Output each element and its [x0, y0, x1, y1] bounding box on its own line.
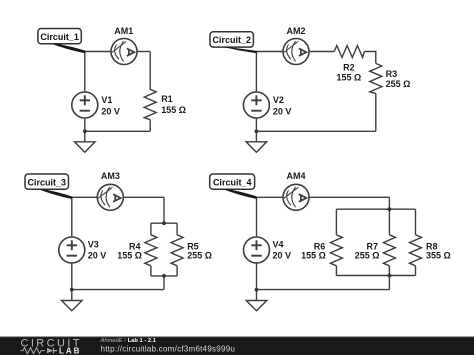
- svg-text:20 V: 20 V: [273, 250, 292, 260]
- wire node4 down to V4 top: [256, 197, 258, 237]
- svg-text:AM3: AM3: [101, 171, 120, 181]
- logo resistor squiggle: [21, 348, 46, 354]
- text R5 value: [187, 241, 212, 260]
- resistor R2 (horizontal): [334, 46, 364, 58]
- wire AM1 right to top-right corner: [137, 51, 150, 53]
- wire R5 top lead: [176, 223, 178, 235]
- ammeter AM1: [111, 39, 137, 65]
- resistor R7: [383, 235, 395, 266]
- wire node2 down to V2 top: [255, 52, 257, 93]
- label pointer c4: [223, 189, 257, 199]
- resistor R1: [144, 89, 156, 119]
- voltage source V3: [59, 237, 85, 263]
- wire V1 bottom to ground junction: [84, 118, 86, 142]
- resistor R4: [145, 235, 157, 266]
- text V2 value: [273, 95, 292, 116]
- wire bottom rail c3: [151, 275, 177, 277]
- wire V2 bottom to ground junction: [255, 118, 257, 142]
- text V1 value: [101, 95, 120, 116]
- ground c4: [246, 301, 267, 311]
- wire R6 top lead: [335, 209, 337, 235]
- text R7 value: [355, 241, 380, 260]
- wire R8 bottom lead: [415, 266, 417, 276]
- ground c2: [246, 142, 267, 153]
- svg-text:LAB: LAB: [59, 346, 81, 355]
- wire AM3 right to corner: [123, 196, 164, 198]
- text R4 value: [117, 241, 142, 260]
- ammeter AM3: [97, 184, 123, 210]
- wire bottom horizontal c3: [72, 289, 164, 291]
- text V3 value: [88, 240, 107, 261]
- svg-text:255 Ω: 255 Ω: [187, 251, 212, 261]
- wire AM4 right to corner: [309, 196, 389, 198]
- svg-text:155 Ω: 155 Ω: [337, 73, 362, 83]
- junction dot bottom c2: [255, 129, 259, 133]
- text R1 value: [161, 94, 186, 115]
- svg-text:155 Ω: 155 Ω: [161, 105, 186, 115]
- wire node1 down to V1 top: [84, 52, 86, 93]
- voltage source V1: [72, 92, 98, 118]
- svg-text:V3: V3: [88, 240, 99, 250]
- label pointer c3: [39, 189, 73, 199]
- svg-text:255 Ω: 255 Ω: [386, 79, 411, 89]
- wire AM2 right to R2 left: [309, 51, 334, 53]
- wire down to parallel top junction: [163, 197, 165, 223]
- wire V4 bottom to ground junction: [256, 263, 258, 301]
- label tag Circuit_2: [210, 32, 253, 47]
- svg-text:20 V: 20 V: [273, 107, 292, 117]
- svg-text:R3: R3: [386, 69, 398, 79]
- ammeter AM4: [283, 184, 309, 210]
- label tag Circuit_1: [38, 29, 81, 44]
- wire down to parallel top junction c4: [388, 197, 390, 209]
- svg-text:155 Ω: 155 Ω: [301, 251, 326, 261]
- voltage source V4: [244, 237, 270, 263]
- svg-text:V4: V4: [273, 240, 284, 250]
- svg-text:R2: R2: [343, 63, 355, 73]
- svg-text:155 Ω: 155 Ω: [117, 251, 142, 261]
- wire node4 to AM4 left: [257, 196, 284, 198]
- text R3 value: [386, 69, 411, 89]
- svg-text:Circuit_1: Circuit_1: [40, 32, 79, 42]
- wire R7 top lead: [388, 209, 390, 235]
- wire R6 bottom lead: [335, 266, 337, 276]
- svg-text:AhmedE / Lab 1 - 2.1: AhmedE / Lab 1 - 2.1: [100, 338, 157, 344]
- wire right vertical down to R1: [149, 52, 151, 90]
- junction dot parallel top c4: [388, 207, 392, 211]
- svg-text:R1: R1: [161, 94, 173, 104]
- label pointer c1: [52, 44, 86, 53]
- svg-text:V2: V2: [273, 95, 284, 105]
- wire R7 bottom lead: [388, 266, 390, 276]
- wire R1 bottom to bottom-right corner: [149, 120, 151, 132]
- wire bottom horizontal c4: [257, 289, 390, 291]
- wire bottom rail c4: [336, 275, 415, 277]
- resistor R5: [171, 235, 183, 266]
- wire R8 top lead: [415, 209, 417, 235]
- wire R4 bottom lead: [150, 266, 152, 276]
- svg-text:Circuit_3: Circuit_3: [28, 177, 67, 187]
- wire R3 bottom down: [375, 93, 377, 131]
- svg-text:AM4: AM4: [286, 171, 305, 181]
- wire R5 bottom lead: [176, 266, 178, 276]
- wire node3 down to V3 top: [71, 197, 73, 237]
- junction dot parallel top c3: [162, 221, 166, 225]
- ground c1: [75, 142, 96, 153]
- svg-text:Circuit_2: Circuit_2: [212, 35, 251, 45]
- svg-text:V1: V1: [101, 95, 112, 105]
- wire node1 to AM1 left: [85, 51, 111, 53]
- junction dot bottom c3: [70, 288, 74, 292]
- wire top rail c3: [151, 222, 177, 224]
- wire node3 to AM3 left: [72, 196, 98, 198]
- label tag Circuit_3: [25, 174, 69, 189]
- text V4 value: [273, 240, 292, 261]
- resistor R3: [370, 63, 382, 93]
- svg-text:AM1: AM1: [114, 26, 133, 36]
- svg-text:20 V: 20 V: [101, 107, 120, 117]
- wire V3 bottom to ground junction: [71, 263, 73, 301]
- svg-text:255 Ω: 255 Ω: [355, 251, 380, 261]
- wire top rail c4: [336, 208, 415, 210]
- wire R2 right to corner: [364, 52, 376, 64]
- svg-text:AM2: AM2: [286, 26, 305, 36]
- text R2 value: [337, 63, 362, 83]
- resistor R6: [330, 235, 342, 266]
- logo diode: [47, 348, 53, 354]
- svg-text:http://circuitlab.com/cf3m6t49: http://circuitlab.com/cf3m6t49s999u: [101, 345, 236, 354]
- junction dot bottom c4: [255, 288, 259, 292]
- voltage source V2: [243, 92, 269, 118]
- ground c3: [62, 301, 83, 311]
- svg-text:355 Ω: 355 Ω: [426, 251, 451, 261]
- footer background: [0, 337, 474, 355]
- junction dot parallel bottom c4: [388, 274, 392, 278]
- wire R4 top lead: [150, 223, 152, 235]
- wire parallel bottom junction down c4: [388, 276, 390, 290]
- svg-text:20 V: 20 V: [88, 250, 107, 260]
- ammeter AM2: [283, 39, 309, 65]
- wire bottom horizontal c2: [256, 130, 375, 132]
- wire parallel bottom junction down: [163, 276, 165, 290]
- text R8 value: [426, 241, 451, 260]
- junction dot parallel bottom c3: [162, 274, 166, 278]
- junction dot bottom c1: [83, 129, 87, 133]
- svg-text:Circuit_4: Circuit_4: [213, 177, 252, 187]
- resistor R8: [410, 235, 422, 266]
- wire bottom horizontal: [85, 130, 150, 132]
- label pointer c2: [224, 47, 258, 53]
- wire node2 to AM2 left: [256, 51, 283, 53]
- label tag Circuit_4: [210, 174, 255, 189]
- text R6 value: [301, 241, 326, 260]
